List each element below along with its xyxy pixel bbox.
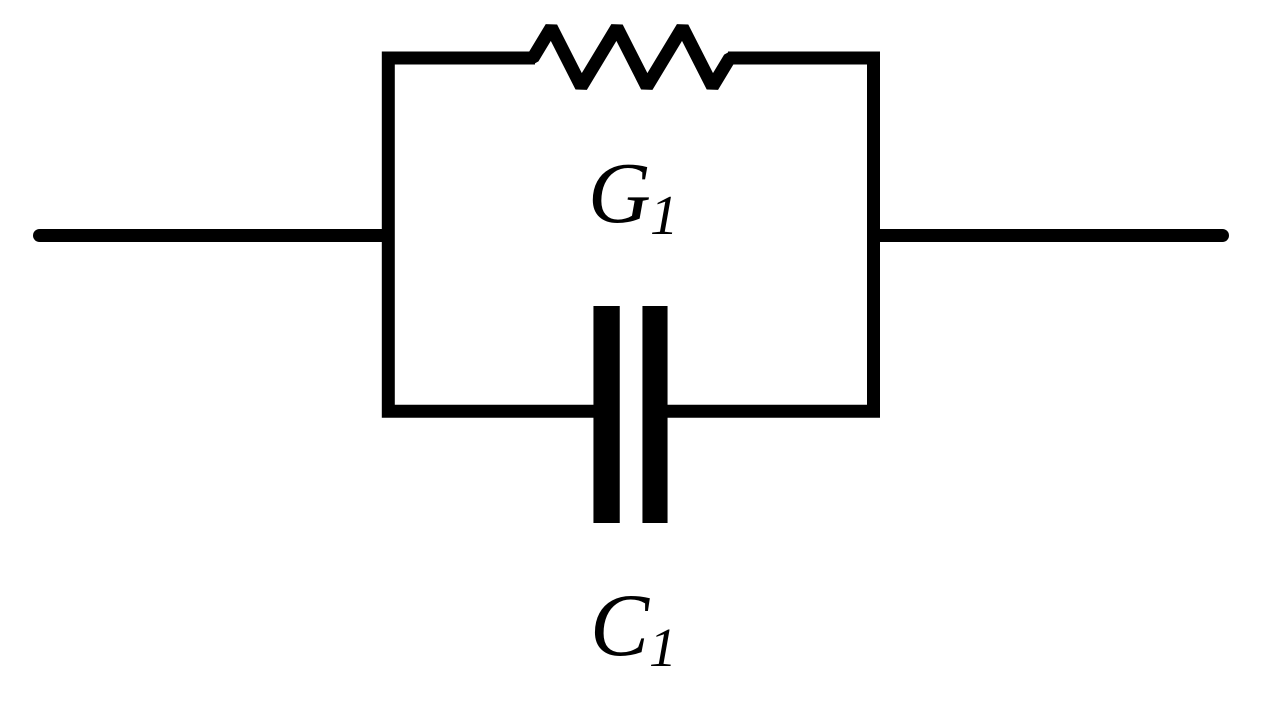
svg-text:C: C bbox=[590, 577, 650, 675]
wire: left lead bbox=[40, 229, 389, 242]
capacitor C1 left plate bbox=[593, 306, 619, 523]
wire: loop top-right segment, right side and bottom-right segment bbox=[655, 58, 874, 411]
capacitor C1 right plate bbox=[642, 306, 667, 523]
wire: right lead bbox=[874, 229, 1223, 242]
wire: loop left side and top-left segment bbox=[388, 58, 607, 411]
svg-text:1: 1 bbox=[650, 185, 678, 247]
svg-text:1: 1 bbox=[649, 618, 677, 679]
svg-text:G: G bbox=[588, 144, 651, 241]
resistor G1 zigzag bbox=[505, 28, 755, 87]
